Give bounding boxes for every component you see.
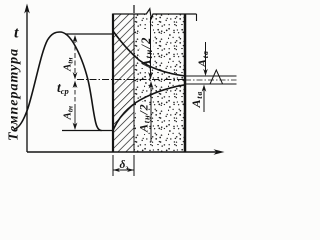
peak tangent line xyxy=(65,33,113,35)
dimension line A_tn/2 upper (x=150.5) xyxy=(150,17,152,77)
indoor mean dash-dot continuation xyxy=(185,79,237,81)
indoor band lower line xyxy=(185,83,237,85)
y-axis (temperature) xyxy=(26,6,28,152)
indoor temperature triangle wave xyxy=(208,70,226,84)
dimension line A_tn upper (x=75, 35..79) xyxy=(74,38,76,77)
hatched protective layer delta_z (113-134) xyxy=(113,14,134,152)
svg-text:Температура: Температура xyxy=(7,48,22,141)
label A_tn/2 upper halo xyxy=(140,29,153,68)
t_cp mean dash-dot line xyxy=(77,79,185,81)
bottom tangent line xyxy=(62,130,113,132)
layer boundary extension above wall xyxy=(133,5,135,13)
upper amplitude envelope curve in wall xyxy=(113,31,185,76)
top line end tick xyxy=(196,14,198,21)
x-axis arrowhead xyxy=(214,149,225,155)
wall right edge xyxy=(184,14,187,153)
label A_tn/2 lower halo xyxy=(136,102,148,134)
wall left edge xyxy=(112,14,114,153)
dimension line A_tn lower (x=75, 81..130) xyxy=(74,83,76,104)
svg-text:t: t xyxy=(14,25,19,42)
wall top line with break symbol xyxy=(113,9,197,19)
indoor band upper line xyxy=(185,75,237,77)
dimension line A_tv upper (x=205.5) xyxy=(205,42,207,73)
layer boundary line xyxy=(133,14,135,152)
outdoor temperature bell curve xyxy=(14,32,102,131)
stippled masonry layer (134-185) xyxy=(134,14,185,152)
lower amplitude envelope curve in wall xyxy=(113,85,185,131)
dimension line A_tv lower (x=204) xyxy=(203,86,205,112)
y-axis arrowhead xyxy=(24,4,30,14)
x-axis (time / thickness) xyxy=(27,151,218,153)
delta_z dimension line xyxy=(113,169,134,171)
delta_z extension line left xyxy=(112,155,114,176)
delta_z extension line right xyxy=(133,155,135,176)
dimension line A_tn/2 lower (x=151) xyxy=(150,83,152,142)
